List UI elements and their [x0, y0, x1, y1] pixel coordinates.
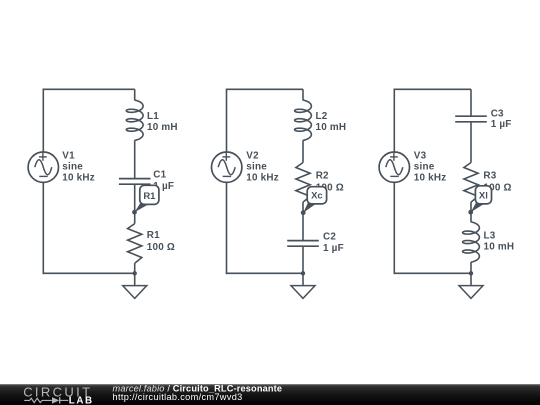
svg-text:R1: R1 [143, 191, 156, 202]
wire: L3 to bottom [470, 262, 472, 273]
svg-text:1 µF: 1 µF [323, 243, 344, 254]
wire: L1 to C1 [134, 140, 136, 178]
svg-text:L3: L3 [484, 231, 496, 242]
inductor L3 [463, 222, 480, 262]
voltage source V1 [28, 152, 58, 182]
wire: R3 to L3 [470, 202, 472, 222]
wire: circuit3 bottom [394, 272, 472, 274]
wire: R1 to bottom [134, 263, 136, 273]
wire: circuit3 top [394, 88, 471, 90]
ground: circuit3 [470, 273, 472, 285]
label L2 10 mH [316, 111, 347, 133]
label L3 10 mH [484, 231, 515, 253]
wire: circuit1 left lower [42, 182, 44, 274]
svg-text:10 mH: 10 mH [147, 122, 178, 133]
svg-text:V2: V2 [246, 151, 259, 162]
svg-text:sine: sine [246, 162, 267, 173]
svg-text:sine: sine [414, 162, 435, 173]
CircuitLab logo squiggle wire with resistor [24, 398, 52, 402]
svg-text:L1: L1 [147, 111, 159, 122]
CircuitLab logo diode [52, 397, 59, 403]
svg-text:C1: C1 [153, 169, 166, 180]
label V2 sine 10 kHz [246, 151, 279, 184]
svg-text:Xl: Xl [479, 191, 488, 202]
svg-text:10 mH: 10 mH [316, 122, 347, 133]
ground: circuit1 [134, 273, 136, 285]
resistor R1 [128, 224, 142, 264]
label R1 100 Ohm [147, 230, 175, 253]
label C1 1 uF [153, 169, 174, 192]
wire: circuit2 top [227, 88, 304, 90]
probe bubble R1 [132, 185, 159, 214]
svg-text:V1: V1 [62, 151, 75, 162]
label L1 10 mH [147, 111, 178, 133]
capacitor C1 [119, 178, 151, 180]
label R3 100 Ohm [483, 171, 511, 194]
wire: circuit3 left upper [393, 89, 395, 153]
node: circuit3 bottom junction [469, 271, 473, 275]
svg-text:sine: sine [62, 162, 83, 173]
label C3 1 uF [491, 108, 512, 130]
label V3 sine 10 kHz [414, 151, 447, 184]
svg-text:10 kHz: 10 kHz [62, 172, 95, 183]
label C2 1 uF [323, 231, 344, 253]
wire: L2 to R2 [302, 140, 304, 162]
svg-text:10 kHz: 10 kHz [246, 172, 279, 183]
node: circuit2 bottom junction [301, 271, 305, 275]
svg-text:L2: L2 [316, 111, 328, 122]
svg-text:LAB: LAB [69, 396, 94, 405]
svg-text:R2: R2 [316, 171, 329, 182]
probe bubble Xl [468, 186, 491, 215]
wire: circuit3 left lower [393, 182, 395, 274]
svg-text:Xc: Xc [311, 191, 323, 202]
label V1 sine 10 kHz [62, 151, 95, 184]
resistor R2 [296, 163, 310, 203]
capacitor C3 [455, 115, 487, 117]
resistor R3 [464, 163, 478, 203]
svg-text:1 µF: 1 µF [491, 119, 512, 130]
wire: C3 to R3 [470, 122, 472, 163]
svg-text:10 kHz: 10 kHz [414, 172, 447, 183]
wire: top to L1 [134, 89, 136, 100]
wire: circuit2 left upper [226, 89, 228, 153]
wire: circuit1 top [43, 88, 134, 90]
svg-text:R3: R3 [483, 171, 496, 182]
label R2 100 Ohm [316, 171, 344, 194]
svg-text:100 Ω: 100 Ω [147, 242, 175, 253]
svg-text:C2: C2 [323, 231, 336, 242]
voltage source V2 [212, 152, 242, 182]
svg-text:http://circuitlab.com/cm7wvd3: http://circuitlab.com/cm7wvd3 [113, 392, 243, 402]
svg-text:V3: V3 [414, 151, 427, 162]
svg-text:10 mH: 10 mH [484, 242, 515, 253]
wire: circuit2 left lower [226, 182, 228, 274]
wire: top to L2 [302, 89, 304, 100]
ground: circuit2 [302, 273, 304, 285]
wire: circuit2 bottom [226, 272, 303, 274]
svg-text:C3: C3 [491, 108, 504, 119]
inductor L1 [126, 100, 143, 140]
node: circuit1 bottom junction [133, 271, 137, 275]
svg-text:R1: R1 [147, 230, 160, 241]
wire: top to C3 [470, 89, 472, 116]
wire: C1 to R1 [134, 184, 136, 224]
inductor L2 [295, 100, 312, 140]
probe bubble Xc [301, 187, 327, 215]
wire: circuit1 left upper [42, 89, 44, 153]
wire: R2 to C2 [302, 202, 304, 241]
wire: circuit1 bottom [43, 272, 135, 274]
voltage source V3 [379, 152, 409, 182]
capacitor C2 [287, 240, 319, 242]
wire: C2 to bottom [302, 246, 304, 273]
